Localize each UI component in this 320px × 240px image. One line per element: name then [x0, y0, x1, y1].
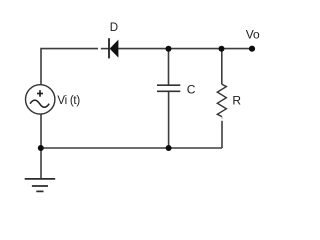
- ground symbol: [25, 179, 56, 192]
- svg-text:D: D: [110, 22, 118, 34]
- diode D triangle: [110, 40, 119, 58]
- wire resistor bottom lead: [221, 121, 223, 148]
- node resistor top junction: [219, 46, 225, 52]
- source Vi circle: [26, 85, 55, 114]
- svg-text:R: R: [232, 94, 241, 108]
- wire ground lead: [40, 148, 42, 179]
- resistor R zigzag: [217, 84, 226, 116]
- wire capacitor node to resistor node: [169, 48, 222, 50]
- capacitor C bottom plate: [157, 90, 180, 92]
- wire resistor node to output terminal: [222, 48, 253, 50]
- svg-text:Vo: Vo: [246, 28, 260, 42]
- wire top-left vertical (source top to top rail): [41, 49, 98, 85]
- svg-text:Vi (t): Vi (t): [57, 95, 80, 107]
- source plus sign: [37, 90, 43, 97]
- wire stub before diode: [101, 48, 109, 50]
- node source bottom junction: [38, 145, 44, 151]
- capacitor C top plate: [157, 84, 180, 86]
- node capacitor top junction: [166, 46, 172, 52]
- diode D cathode bar: [108, 38, 110, 58]
- svg-text:C: C: [187, 83, 196, 97]
- wire resistor top lead: [221, 49, 223, 85]
- wire resistor lead faint stub: [221, 117, 223, 118]
- wire diode to capacitor node: [118, 48, 168, 50]
- wire capacitor bottom lead: [168, 91, 170, 148]
- wire capacitor top lead: [168, 49, 170, 86]
- source sine wave: [30, 100, 49, 107]
- wire bottom rail: [40, 147, 222, 149]
- wire source bottom lead: [40, 114, 42, 148]
- node output terminal Vo: [249, 46, 255, 52]
- node capacitor bottom junction: [166, 145, 172, 151]
